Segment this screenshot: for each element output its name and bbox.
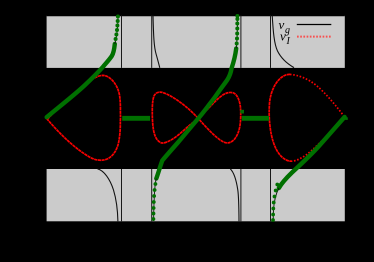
svg-text:v: v — [280, 29, 286, 44]
svg-text:I: I — [286, 36, 291, 47]
